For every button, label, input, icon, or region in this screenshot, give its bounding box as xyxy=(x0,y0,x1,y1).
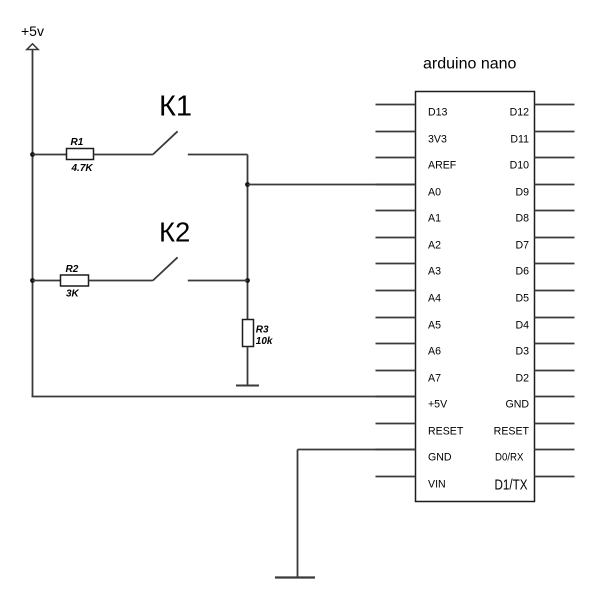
wire ground column vertical xyxy=(297,450,299,578)
svg-text:К2: К2 xyxy=(159,217,190,248)
pin stub right D10 xyxy=(535,157,575,159)
power +5v arrow symbol xyxy=(27,44,38,50)
pin label D0/RX xyxy=(495,452,524,464)
svg-text:A1: A1 xyxy=(428,213,441,225)
svg-text:D8: D8 xyxy=(515,213,529,225)
junction node to A0 xyxy=(245,182,250,187)
svg-text:D12: D12 xyxy=(510,107,530,119)
wire K1 contact to node column xyxy=(188,154,248,156)
value 4.7K xyxy=(71,163,94,174)
svg-text:10k: 10k xyxy=(256,336,273,347)
svg-text:D0/RX: D0/RX xyxy=(495,452,524,464)
svg-text:D4: D4 xyxy=(515,320,529,332)
pin stub right D9 xyxy=(535,184,575,186)
svg-text:D13: D13 xyxy=(428,107,448,119)
switch K1 blade xyxy=(153,131,178,154)
svg-text:D1/TX: D1/TX xyxy=(495,478,528,494)
wire rail to R1 xyxy=(33,154,67,156)
pin stub right D12 xyxy=(535,104,575,106)
svg-text:AREF: AREF xyxy=(428,160,457,172)
pin stub left VIN xyxy=(376,476,416,478)
label K2 xyxy=(159,217,190,248)
svg-text:D10: D10 xyxy=(510,160,530,172)
svg-text:D7: D7 xyxy=(515,240,529,252)
pin stub right D11 xyxy=(535,131,575,133)
pin label A0 xyxy=(428,187,441,199)
svg-text:3V3: 3V3 xyxy=(428,134,447,146)
svg-text:VIN: VIN xyxy=(428,479,446,491)
svg-text:К1: К1 xyxy=(159,91,192,123)
pin label AREF xyxy=(428,160,457,172)
resistor R3 xyxy=(243,320,254,347)
svg-text:A2: A2 xyxy=(428,240,441,252)
pin label 3V3 xyxy=(428,134,447,146)
junction node to K2 xyxy=(245,278,250,283)
label R2 xyxy=(66,264,79,275)
svg-text:3K: 3K xyxy=(66,289,80,300)
resistor R2 xyxy=(61,275,89,286)
pin stub right GND xyxy=(535,396,575,398)
pin label D2 xyxy=(515,373,529,385)
svg-text:R2: R2 xyxy=(66,264,79,275)
pin label GND xyxy=(505,399,529,411)
pin stub left 3V3 xyxy=(376,131,416,133)
svg-text:D9: D9 xyxy=(515,187,529,199)
power label +5v xyxy=(21,23,44,39)
wire R3 to ground xyxy=(247,347,249,386)
pin label D6 xyxy=(515,266,529,278)
svg-text:R1: R1 xyxy=(71,137,84,148)
pin stub left AREF xyxy=(376,157,416,159)
junction rail-R2 xyxy=(30,278,35,283)
ground bottom xyxy=(275,576,315,578)
pin label D11 xyxy=(510,134,529,146)
pin stub left A1 xyxy=(376,210,416,212)
value 3K xyxy=(66,289,80,300)
svg-text:A5: A5 xyxy=(428,320,441,332)
pin label D4 xyxy=(515,320,529,332)
IC U1 arduino nano body xyxy=(416,92,535,502)
pin label A1 xyxy=(428,213,441,225)
svg-text:D5: D5 xyxy=(515,293,529,305)
resistor R1 xyxy=(67,149,94,160)
pin stub left D13 xyxy=(376,104,416,106)
pin stub right D1/TX xyxy=(535,476,575,478)
svg-text:+5V: +5V xyxy=(428,399,448,411)
pin label RESET xyxy=(494,426,530,438)
pin label RESET xyxy=(428,426,464,438)
pin stub right D4 xyxy=(535,317,575,319)
svg-text:A4: A4 xyxy=(428,293,441,305)
pin label D12 xyxy=(510,107,530,119)
junction rail-R1 xyxy=(30,152,35,157)
svg-text:A0: A0 xyxy=(428,187,441,199)
pin label A4 xyxy=(428,293,441,305)
pin stub left A7 xyxy=(376,370,416,372)
pin stub right D0/RX xyxy=(535,449,575,451)
pin stub right D7 xyxy=(535,237,575,239)
arduino nano title xyxy=(423,56,517,73)
pin label +5V xyxy=(428,399,448,411)
pin label A6 xyxy=(428,346,441,358)
pin stub left A5 xyxy=(376,317,416,319)
pin label D10 xyxy=(510,160,530,172)
wire rail to R2 xyxy=(33,280,61,282)
svg-text:A6: A6 xyxy=(428,346,441,358)
wire +5v rail vertical xyxy=(32,50,34,397)
pin label VIN xyxy=(428,479,446,491)
pin stub left A2 xyxy=(376,237,416,239)
svg-text:arduino nano: arduino nano xyxy=(423,56,517,73)
label K1 xyxy=(159,91,192,123)
pin stub left GND xyxy=(376,449,416,451)
pin stub right RESET xyxy=(535,423,575,425)
svg-text:D11: D11 xyxy=(510,134,529,146)
wire node to arduino A0 xyxy=(248,184,416,186)
label R1 xyxy=(71,137,84,148)
pin label D3 xyxy=(515,346,529,358)
svg-text:A3: A3 xyxy=(428,266,441,278)
pin label D5 xyxy=(515,293,529,305)
svg-text:GND: GND xyxy=(505,399,529,411)
pin label A2 xyxy=(428,240,441,252)
pin label D13 xyxy=(428,107,448,119)
svg-text:D2: D2 xyxy=(515,373,529,385)
pin label D7 xyxy=(515,240,529,252)
pin stub right D5 xyxy=(535,290,575,292)
svg-text:A7: A7 xyxy=(428,373,441,385)
pin stub right D3 xyxy=(535,343,575,345)
svg-text:RESET: RESET xyxy=(428,426,464,438)
svg-text:+5v: +5v xyxy=(21,23,44,39)
value 10k xyxy=(256,336,273,347)
wire node column vertical xyxy=(247,155,249,320)
pin label A7 xyxy=(428,373,441,385)
switch K2 blade xyxy=(153,257,178,280)
pin stub right D2 xyxy=(535,370,575,372)
svg-text:GND: GND xyxy=(428,452,452,464)
svg-text:D3: D3 xyxy=(515,346,529,358)
pin stub left A4 xyxy=(376,290,416,292)
wire R1 to switch K1 xyxy=(94,154,153,156)
label R3 xyxy=(256,325,269,336)
pin stub left A6 xyxy=(376,343,416,345)
pin label D8 xyxy=(515,213,529,225)
pin label GND xyxy=(428,452,452,464)
pin label A3 xyxy=(428,266,441,278)
pin stub right D6 xyxy=(535,263,575,265)
wire +5v rail to arduino +5V pin xyxy=(32,396,416,398)
svg-text:R3: R3 xyxy=(256,325,269,336)
pin stub left RESET xyxy=(376,423,416,425)
wire K2 contact to node column xyxy=(188,280,248,282)
pin label A5 xyxy=(428,320,441,332)
pin label D9 xyxy=(515,187,529,199)
pin stub left A0 xyxy=(376,184,416,186)
wire R2 to switch K2 xyxy=(89,280,153,282)
pin label D1/TX xyxy=(495,478,528,494)
pin stub right D8 xyxy=(535,210,575,212)
svg-text:4.7K: 4.7K xyxy=(71,163,94,174)
wire arduino GND to ground column xyxy=(298,449,416,451)
svg-text:D6: D6 xyxy=(515,266,529,278)
pin stub left A3 xyxy=(376,263,416,265)
pin stub left +5V xyxy=(376,396,416,398)
svg-text:RESET: RESET xyxy=(494,426,530,438)
ground under R3 xyxy=(236,385,259,387)
